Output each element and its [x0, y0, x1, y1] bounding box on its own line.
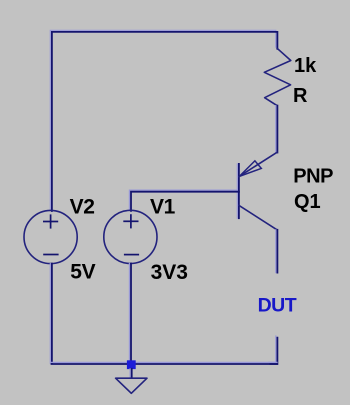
svg-text:V1: V1: [150, 195, 176, 218]
wire base lead from V1 top corner to base bar: [129, 190, 238, 211]
voltage source V1 plus sign: [123, 214, 138, 228]
svg-text:R: R: [293, 85, 308, 107]
voltage source V2 circle: [24, 210, 77, 263]
wire collector down to DUT gap: [276, 230, 278, 273]
voltage source V2 plus sign: [43, 214, 58, 228]
svg-text:3V3: 3V3: [151, 261, 188, 284]
wire DUT gap to bottom rail corner: [269, 336, 278, 364]
wire bottom rail: [52, 362, 278, 364]
svg-text:DUT: DUT: [258, 294, 297, 316]
wire V2 bottom to rail: [50, 264, 52, 364]
voltage source V1 circle: [104, 210, 157, 263]
svg-text:V2: V2: [70, 195, 95, 218]
voltage source V1 minus sign: [124, 254, 139, 256]
wire resistor to emitter: [276, 106, 278, 153]
wire ground stub: [130, 369, 132, 378]
ground symbol: [116, 378, 147, 393]
svg-text:PNP: PNP: [293, 166, 333, 188]
transistor Q1 base bar: [237, 164, 239, 218]
svg-text:Q1: Q1: [294, 191, 321, 213]
transistor Q1 collector diagonal: [239, 205, 277, 230]
voltage source V2 minus sign: [43, 254, 58, 256]
svg-text:1k: 1k: [294, 55, 317, 77]
wire left rail and top rail to resistor: [50, 30, 277, 211]
transistor Q1 emitter diagonal with PNP arrow: [239, 152, 277, 176]
resistor R zigzag body: [264, 48, 291, 105]
wire V1 bottom to junction: [129, 264, 131, 364]
svg-text:5V: 5V: [70, 261, 95, 284]
junction dot at V1/ground/bottom rail: [127, 360, 136, 369]
